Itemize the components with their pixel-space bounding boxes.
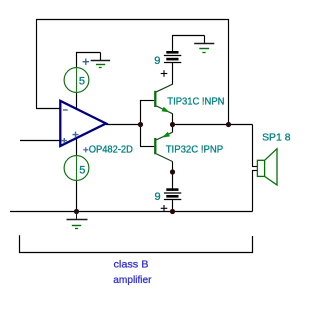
- battery V3 plus mark: [161, 70, 168, 77]
- annotation bracket: [20, 235, 253, 252]
- op-amp U1 plus power mark: [73, 132, 79, 138]
- wire speaker top stub: [252, 166, 257, 168]
- op-amp U1 minus input mark: [63, 109, 68, 111]
- wire base node vertical: [140, 100, 142, 147]
- wire feedback right vertical: [228, 19, 230, 125]
- node output of op-amp: [138, 122, 143, 127]
- wire ground stub top right: [204, 36, 206, 44]
- svg-text:amplifier: amplifier: [113, 274, 152, 286]
- wire battery V3 top: [173, 36, 205, 53]
- wire battery V4 bottom: [172, 200, 174, 212]
- svg-text:9: 9: [154, 55, 160, 67]
- wire non-inverting input stub: [20, 140, 60, 142]
- wire Q1 base: [140, 100, 154, 102]
- svg-text:OP482-2D: OP482-2D: [89, 143, 134, 155]
- wire speaker top feed: [252, 125, 254, 167]
- voltage source V2 wire through: [76, 156, 78, 181]
- wire Q1 collector to battery V3: [172, 63, 174, 85]
- wire Q2 collector to battery V4: [172, 161, 174, 189]
- ground top right: [194, 44, 214, 53]
- voltage source V1 wire through: [76, 68, 78, 93]
- voltage source V2: [64, 156, 89, 181]
- svg-text:TIP32C !PNP: TIP32C !PNP: [166, 143, 224, 155]
- voltage source V1 plus mark: [83, 59, 89, 65]
- wire Q2 emitter stub: [172, 125, 174, 133]
- wire feedback top horizontal: [36, 19, 229, 21]
- op-amp U1 label plus mark: [83, 147, 88, 152]
- wire op-amp output: [106, 124, 141, 126]
- wire ground rail: [10, 211, 253, 213]
- node feedback junction: [226, 122, 231, 127]
- wire Q2 base: [140, 146, 154, 148]
- wire ground stub top left: [100, 53, 102, 61]
- svg-text:5: 5: [79, 165, 85, 177]
- svg-text:class B: class B: [114, 258, 149, 270]
- wire speaker bottom feed: [252, 171, 254, 212]
- wire speaker bottom stub: [252, 170, 257, 172]
- wire source V1 top to ground: [77, 53, 101, 68]
- ground top left: [91, 61, 110, 68]
- transistor Q2 TIP32C PNP: [155, 132, 172, 162]
- node Q2 collector battery junction: [170, 169, 175, 174]
- wire output node horizontal: [172, 124, 253, 126]
- battery V4 plus mark: [161, 205, 168, 211]
- voltage source V1: [64, 68, 89, 93]
- speaker SP1: [257, 149, 277, 185]
- op-amp U1: [60, 101, 106, 146]
- wire op-amp V+ power pin: [76, 138, 78, 156]
- svg-text:TIP31C !NPN: TIP31C !NPN: [167, 96, 224, 108]
- node emitters junction: [170, 122, 175, 127]
- svg-text:5: 5: [79, 75, 85, 87]
- op-amp U1 plus input mark: [62, 138, 67, 143]
- node battery V4 ground junction: [170, 209, 175, 214]
- svg-text:9: 9: [155, 191, 161, 203]
- battery V3: [164, 52, 181, 62]
- ground bottom: [67, 212, 88, 229]
- wire inverting input: [36, 108, 60, 110]
- transistor Q1 TIP31C NPN: [155, 84, 172, 114]
- node source V2 ground junction: [74, 209, 79, 214]
- svg-text:SP1 8: SP1 8: [262, 131, 291, 143]
- wire op-amp V- power pin: [76, 92, 78, 109]
- wire Q1 emitter stub: [172, 114, 174, 125]
- battery V4: [164, 190, 181, 200]
- wire feedback left vertical: [36, 19, 38, 109]
- wire source V2 bottom: [76, 180, 78, 211]
